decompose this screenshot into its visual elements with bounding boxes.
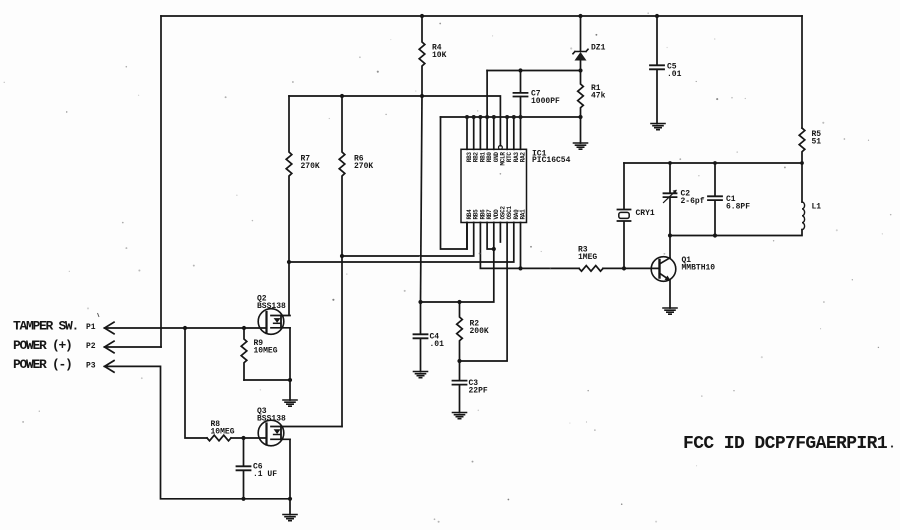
wire tank top rail [624, 162, 802, 164]
svg-text:RA2: RA2 [520, 152, 527, 163]
wire pin stub RTC [506, 117, 508, 149]
zener diode DZ1 [580, 16, 582, 51]
wire pin stub RA3 [513, 117, 515, 149]
node R6-RB5 junction [340, 254, 344, 258]
wire R3 to Q1 base [603, 267, 659, 269]
resistor R5 [799, 128, 805, 163]
svg-text:P3: P3 [86, 362, 96, 371]
svg-text:BSS138: BSS138 [257, 302, 286, 311]
capacitor C5 [656, 16, 658, 124]
ground under Q1 [663, 308, 677, 314]
wire RB0 column up [486, 71, 488, 118]
svg-text:10MEG: 10MEG [254, 347, 278, 356]
ground under C4 [414, 372, 428, 378]
node DZ1-R1-C7rail junction [578, 68, 582, 72]
ground bottom under Q3 [283, 515, 297, 521]
node Q3 source bottom junction [288, 497, 292, 501]
wire top rail [161, 15, 802, 17]
node R7-RA0 junction [287, 260, 291, 264]
capacitor C3 [459, 361, 461, 413]
wire bus left end down to RB4 [441, 117, 468, 249]
capacitor C4 [420, 302, 422, 372]
node C1 bottom junction [713, 233, 717, 237]
node C4 top junction [418, 300, 422, 304]
node C7 top junction [518, 68, 522, 72]
wire RB6 down to R3 line [480, 223, 579, 269]
wire RA0 to R7 [289, 223, 514, 263]
node C6 bottom junction [241, 497, 245, 501]
transistor Q3 BSS138 [258, 420, 284, 446]
node P1 arrow [105, 322, 115, 334]
wire VDD column down [421, 223, 494, 303]
pin MCLR inversion bubble [499, 146, 503, 150]
node P3 arrow [105, 361, 115, 373]
svg-text:22PF: 22PF [469, 387, 488, 396]
op IC1 PIC16C54 box [461, 149, 527, 222]
node bus-R1 junction [578, 115, 582, 119]
wire Q1 collector [669, 236, 671, 258]
svg-text:P2: P2 [86, 342, 96, 351]
node R2 bottom junction [457, 359, 461, 363]
capacitor C1 [714, 163, 716, 236]
wire Q1 emitter to ground [669, 280, 671, 308]
resistor R3 [579, 266, 603, 272]
svg-text:FCC ID DCP7FGAERPIR1: FCC ID DCP7FGAERPIR1 [683, 434, 888, 454]
svg-text:270K: 270K [354, 162, 373, 171]
wire right frame vertical down to R5 [801, 16, 803, 128]
svg-text:L1: L1 [812, 203, 822, 212]
resistor R9 [241, 328, 247, 380]
variable capacitor C2 [669, 163, 671, 236]
wire P2 to left frame [105, 346, 162, 348]
wire OSC1 column down to R2 bottom [460, 223, 508, 362]
svg-text:1000PF: 1000PF [531, 97, 560, 106]
svg-text:1MEG: 1MEG [578, 253, 597, 262]
wire pin stub RB0 [486, 117, 488, 149]
wire pin stub RA1 [520, 223, 522, 269]
svg-text:MMBTH10: MMBTH10 [682, 264, 716, 273]
svg-text:200K: 200K [470, 327, 489, 336]
node C2 bottom / collector junction [668, 233, 672, 237]
svg-text:10MEG: 10MEG [211, 428, 235, 437]
svg-text:CRY1: CRY1 [636, 209, 655, 218]
resistor R8 [207, 435, 231, 441]
wire pin stub RB3 [466, 117, 468, 149]
svg-text:.01: .01 [430, 340, 445, 349]
wire pin stub RB7 to VDD column [487, 223, 494, 250]
svg-text:POWER (+): POWER (+) [13, 338, 72, 353]
svg-text:.01: .01 [667, 70, 682, 79]
resistor R1 [578, 71, 584, 144]
svg-text:BSS138: BSS138 [257, 415, 286, 424]
node Q2 source junction [288, 378, 292, 382]
node R6 top junction [340, 94, 344, 98]
ground under C3 [453, 413, 467, 419]
wire pin stub RB1 [479, 117, 481, 149]
svg-text:47k: 47k [591, 92, 606, 101]
inductor L1 [801, 163, 803, 202]
resistor R4 [419, 16, 425, 96]
svg-text:RA1: RA1 [520, 209, 527, 220]
node P2 arrow [105, 341, 115, 353]
node tamper-R8 junction [183, 326, 187, 330]
svg-text:P1: P1 [86, 323, 96, 332]
node RA1-R3 junction [518, 266, 522, 270]
wire pin stub RA2 [520, 117, 522, 149]
wire R9 bottom to Q2 source [244, 379, 290, 381]
svg-text:.1 UF: .1 UF [253, 470, 277, 479]
wire Q3 source down to bottom rail and ground [289, 440, 291, 515]
resistor R7 [286, 96, 292, 315]
wire pin stub OSC2 (open) [499, 223, 501, 243]
wire RB5 to R6 [342, 223, 474, 257]
crystal CRY1 [623, 163, 625, 268]
svg-text:51: 51 [812, 138, 822, 147]
svg-text:DZ1: DZ1 [591, 44, 606, 53]
node top-rail DZ1 junction [578, 14, 582, 18]
wire tamper down to R8 [185, 328, 207, 438]
svg-text:POWER (-): POWER (-) [13, 357, 72, 372]
node tank rail junctions [668, 161, 804, 165]
ground under C5 [651, 124, 665, 130]
node CRY1-base junction [622, 266, 626, 270]
resistor R6 [339, 96, 345, 427]
wire Q2 drain up R7 column handled; wire Q2 source down [289, 328, 291, 400]
node bus junctions at pins [465, 115, 523, 119]
capacitor C6 [243, 438, 245, 499]
wire P3 to bottom rail [105, 366, 291, 498]
node RB7-VDD junction [492, 247, 496, 251]
svg-text:PIC16C54: PIC16C54 [532, 156, 571, 165]
wire top pin bus [441, 116, 581, 118]
transistor Q1 MMBTH10 [651, 257, 676, 282]
node C6 top junction [241, 436, 245, 440]
node R2 top junction [457, 300, 461, 304]
node top-rail R4 junction [420, 14, 424, 18]
wire R4 column down to C4 line [421, 96, 423, 302]
node top-rail C5 junction [655, 14, 659, 18]
capacitor C7 [520, 71, 522, 118]
stray mark above P1 [98, 313, 100, 317]
transistor Q2 BSS138 [258, 309, 284, 335]
wire C7 rail [487, 70, 580, 72]
wire MCLR net horizontal y96 [289, 96, 500, 146]
wire pin stub RB4 bottom [466, 223, 468, 250]
ground under R1 [574, 143, 588, 149]
FCC trailing period mark [891, 445, 893, 447]
svg-text:2-6pf: 2-6pf [681, 197, 705, 206]
svg-text:6.8PF: 6.8PF [726, 203, 750, 212]
wire left frame vertical to P2 [160, 16, 162, 347]
ground under Q2 [283, 400, 297, 406]
node R9 top junction [242, 326, 246, 330]
wire pin stub RB2 [473, 117, 475, 149]
resistor R2 [457, 302, 463, 361]
wire P1 tamper line to Q2 gate [105, 327, 267, 329]
node R4 mid junction [420, 94, 424, 98]
svg-text:TAMPER SW.: TAMPER SW. [13, 319, 78, 334]
wire R8 to Q3 gate [231, 437, 266, 439]
wire pin stub GND [493, 117, 495, 149]
svg-text:270K: 270K [301, 162, 320, 171]
svg-text:10K: 10K [432, 51, 447, 60]
